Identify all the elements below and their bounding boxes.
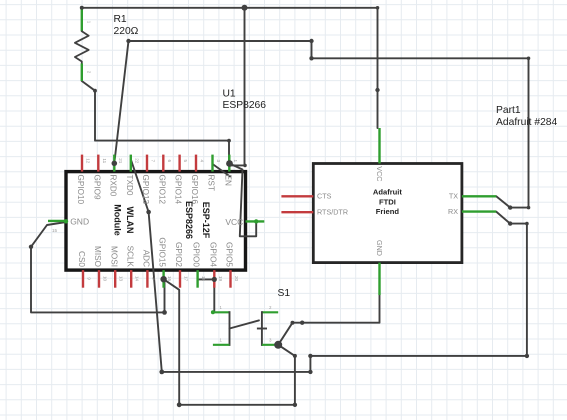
svg-text:GND: GND xyxy=(70,217,89,227)
wire RX route xyxy=(162,212,527,372)
node wire bend R1 xyxy=(93,89,97,93)
svg-text:Adafruit: Adafruit xyxy=(373,188,403,197)
node TX lead bends xyxy=(508,205,512,209)
svg-text:RXD0: RXD0 xyxy=(108,175,117,197)
svg-text:VCC: VCC xyxy=(225,217,243,227)
pin GPIO9 U1 xyxy=(97,155,99,172)
svg-text:MISO: MISO xyxy=(93,246,102,267)
IC Part1 Adafruit FTDI Friend body xyxy=(313,164,462,263)
svg-text:13: 13 xyxy=(119,276,124,282)
svg-text:GPIO15: GPIO15 xyxy=(158,237,167,267)
svg-text:20: 20 xyxy=(234,276,239,282)
svg-text:10: 10 xyxy=(103,276,108,282)
svg-text:22: 22 xyxy=(134,158,139,164)
svg-text:GPIO0: GPIO0 xyxy=(192,242,201,267)
pin CS0 U1 xyxy=(82,270,84,288)
svg-text:GPIO9: GPIO9 xyxy=(92,175,101,200)
node RX route bends xyxy=(308,354,312,358)
node TXD0 bend xyxy=(146,210,151,215)
svg-text:MOSI: MOSI xyxy=(109,246,118,267)
svg-text:16: 16 xyxy=(167,276,172,282)
wire EN riser xyxy=(230,8,245,166)
pin CTS FTDI xyxy=(281,195,313,197)
pin GPIO10 U1 xyxy=(81,155,83,172)
pin SCLK U1 xyxy=(130,270,132,288)
node TX corner xyxy=(376,6,380,10)
pin VCC FTDI xyxy=(378,128,380,164)
node GPIO15 junction xyxy=(160,276,166,282)
node horizontal-2 left end xyxy=(126,39,130,43)
svg-text:9: 9 xyxy=(87,277,92,280)
svg-text:GPIO2: GPIO2 xyxy=(174,242,183,267)
pin MOSI U1 xyxy=(114,270,116,288)
pin TXD0 U1 xyxy=(130,155,132,172)
wire RXD0 diagonal xyxy=(114,41,128,163)
node GND-GPIO15 xyxy=(162,310,167,315)
pin TX FTDI xyxy=(462,195,496,197)
node bottom bends xyxy=(177,402,182,407)
svg-text:ESP8266: ESP8266 xyxy=(223,100,267,111)
node EN junction xyxy=(226,160,233,167)
svg-text:TX: TX xyxy=(449,192,458,201)
pin VCC U1 xyxy=(246,220,265,222)
node ESP VCC green xyxy=(254,219,258,223)
pin RXD0 U1 xyxy=(113,155,115,172)
svg-text:1: 1 xyxy=(233,160,238,163)
svg-text:RST: RST xyxy=(207,175,216,191)
wire FTDI GND route xyxy=(278,295,379,345)
pin GPIO15 U1 xyxy=(162,270,164,288)
switch S1 lever xyxy=(230,320,259,328)
resistor R1 xyxy=(81,9,83,31)
svg-text:ESP8266: ESP8266 xyxy=(184,201,194,239)
node VCC wire mid xyxy=(375,88,379,92)
svg-text:Module: Module xyxy=(113,204,123,236)
svg-text:GPIO14: GPIO14 xyxy=(174,175,183,205)
svg-text:Adafruit #284: Adafruit #284 xyxy=(496,117,558,128)
node switch pin1 green xyxy=(211,310,215,314)
node RX corner xyxy=(525,222,529,226)
node TXD0 end xyxy=(159,370,164,375)
svg-text:GPIO4: GPIO4 xyxy=(208,242,217,267)
wire GND route xyxy=(31,222,165,312)
svg-text:Friend: Friend xyxy=(376,207,400,216)
svg-text:GPIO13: GPIO13 xyxy=(141,175,150,205)
svg-text:RTS/DTR: RTS/DTR xyxy=(317,208,348,217)
pin EN U1 xyxy=(228,155,230,172)
wire GPIO0 to switch xyxy=(198,279,215,311)
svg-text:ESP-12F: ESP-12F xyxy=(201,202,211,239)
node bend 311 xyxy=(309,39,313,43)
svg-text:18: 18 xyxy=(201,276,206,282)
svg-text:CS0: CS0 xyxy=(77,251,86,267)
node at vertical-horizontal EN xyxy=(243,164,247,168)
pin GPIO14 U1 xyxy=(178,155,180,172)
svg-text:14: 14 xyxy=(135,276,140,282)
svg-text:12: 12 xyxy=(86,158,91,164)
switch S1 pole left xyxy=(213,311,230,313)
svg-text:GPIO12: GPIO12 xyxy=(157,175,166,205)
pin GPIO13 U1 xyxy=(146,155,148,172)
svg-text:17: 17 xyxy=(184,276,189,282)
wire TXD0 diagonal xyxy=(131,159,162,372)
svg-text:GND: GND xyxy=(375,240,384,256)
IC U1 ESP-12F WLAN module body xyxy=(66,172,246,271)
wire top VCC rail xyxy=(82,8,378,128)
svg-text:RX: RX xyxy=(448,207,458,216)
pin RST U1 xyxy=(211,155,213,172)
svg-text:WLAN: WLAN xyxy=(125,207,135,234)
svg-text:SCLK: SCLK xyxy=(125,246,134,268)
wire GPIO15 to switch common xyxy=(164,279,295,405)
pin GPIO5 U1 xyxy=(229,270,231,288)
svg-text:Part1: Part1 xyxy=(496,105,521,116)
pin RTS/DTR FTDI xyxy=(281,211,313,213)
pin GND U1 xyxy=(48,220,66,222)
node GPIO0 bend xyxy=(212,277,217,282)
svg-text:U1: U1 xyxy=(223,89,236,100)
switch S1 pole right xyxy=(262,311,278,313)
svg-text:VCC: VCC xyxy=(375,166,384,181)
svg-text:GPIO5: GPIO5 xyxy=(225,242,234,267)
node top-left wire end xyxy=(80,6,84,10)
svg-text:2: 2 xyxy=(151,277,156,280)
svg-text:ADC: ADC xyxy=(142,250,151,267)
pin ADC U1 xyxy=(146,270,148,288)
svg-text:GPIO10: GPIO10 xyxy=(76,175,85,205)
svg-text:21: 21 xyxy=(118,158,123,164)
pin GPIO0 U1 xyxy=(196,270,198,288)
svg-text:4: 4 xyxy=(200,160,205,163)
svg-text:3: 3 xyxy=(216,160,221,163)
wire EN to VCC pin xyxy=(230,164,257,237)
svg-text:7: 7 xyxy=(151,160,156,163)
svg-text:19: 19 xyxy=(218,276,223,282)
svg-text:6: 6 xyxy=(167,160,172,163)
svg-text:TXD0: TXD0 xyxy=(125,175,134,196)
svg-text:R1: R1 xyxy=(114,14,127,25)
node TX top corner xyxy=(527,57,531,61)
wire RST stub xyxy=(213,164,231,177)
pin GPIO4 U1 xyxy=(213,270,215,288)
pin RX FTDI xyxy=(462,210,496,212)
pin GPIO12 U1 xyxy=(162,155,164,172)
svg-text:5: 5 xyxy=(183,160,188,163)
svg-text:EN: EN xyxy=(223,175,232,186)
svg-text:15: 15 xyxy=(52,228,58,233)
pin GPIO16 U1 xyxy=(195,155,197,172)
pin MISO U1 xyxy=(98,270,100,288)
pin GND FTDI xyxy=(378,263,380,296)
pin GPIO2 U1 xyxy=(179,270,181,288)
wire TX route xyxy=(129,41,529,208)
svg-text:FTDI: FTDI xyxy=(379,197,396,206)
node switch common junction xyxy=(274,341,282,349)
svg-text:220Ω: 220Ω xyxy=(114,26,139,37)
node top junction xyxy=(242,5,248,11)
wire R1 bottom to EN xyxy=(82,81,229,164)
svg-text:CTS: CTS xyxy=(317,192,332,201)
svg-text:11: 11 xyxy=(102,158,107,163)
svg-text:S1: S1 xyxy=(278,288,291,299)
node FTDI GND bends xyxy=(300,321,304,325)
node GND bend xyxy=(29,245,33,249)
node RXD0 xyxy=(112,161,118,167)
